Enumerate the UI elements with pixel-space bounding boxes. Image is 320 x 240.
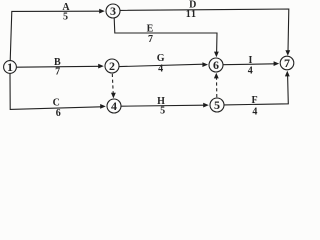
- arrowhead F into node7 bottom: [285, 71, 290, 77]
- svg-text:5: 5: [160, 106, 165, 117]
- arrowhead D into node7 top: [285, 50, 290, 56]
- wire dummy dashed node5 to node6: [216, 78, 218, 97]
- svg-text:7: 7: [148, 34, 153, 45]
- node 3 circle: [106, 4, 120, 18]
- svg-text:1: 1: [7, 60, 13, 74]
- svg-text:6: 6: [213, 58, 219, 72]
- arrowhead B into node2: [98, 64, 104, 69]
- wire activity A path node1 to node3: [10, 11, 99, 61]
- node 5 circle: [210, 98, 224, 112]
- node 7 circle: [280, 56, 294, 70]
- svg-text:I: I: [249, 55, 253, 66]
- arrowhead A into node3: [99, 9, 105, 14]
- svg-text:4: 4: [111, 99, 117, 113]
- svg-text:4: 4: [158, 64, 163, 75]
- wire activity C path node1 to node4: [10, 74, 101, 110]
- wire activity B path node1 to node2: [17, 65, 99, 68]
- svg-text:4: 4: [248, 66, 253, 77]
- node 2 circle: [105, 59, 119, 73]
- svg-text:F: F: [251, 95, 257, 106]
- svg-text:4: 4: [252, 107, 257, 118]
- svg-text:2: 2: [109, 59, 115, 73]
- arrowhead I into node7: [274, 61, 280, 66]
- arrowhead E into node6 top: [214, 52, 219, 58]
- svg-text:3: 3: [110, 4, 116, 18]
- arrowhead dummy into node4 top: [111, 93, 116, 99]
- svg-text:11: 11: [186, 9, 197, 20]
- wire activity D path node3 to node7: [120, 9, 289, 52]
- wire activity G path node2 to node6: [119, 64, 203, 66]
- svg-text:C: C: [53, 98, 60, 109]
- arrowhead C into node4: [100, 104, 106, 109]
- wire activity F path node5 to node7: [224, 76, 288, 105]
- node 6 circle: [209, 58, 223, 72]
- wire activity H path node4 to node5: [121, 105, 204, 106]
- wire activity I path node6 to node7: [223, 63, 274, 66]
- svg-text:7: 7: [284, 56, 290, 70]
- arrowhead dummy into node6 bottom: [214, 73, 219, 79]
- svg-text:G: G: [157, 53, 165, 64]
- wire dummy dashed node2 to node4: [111, 74, 114, 94]
- svg-text:5: 5: [214, 98, 220, 112]
- node 1 circle: [4, 61, 17, 74]
- svg-text:6: 6: [56, 108, 61, 119]
- arrowhead H into node5: [203, 103, 209, 108]
- wire activity E path node3 to node6: [114, 18, 217, 52]
- svg-text:7: 7: [55, 67, 60, 78]
- arrowhead G into node6: [202, 62, 208, 67]
- node 4 circle: [107, 99, 121, 113]
- svg-text:5: 5: [63, 12, 68, 23]
